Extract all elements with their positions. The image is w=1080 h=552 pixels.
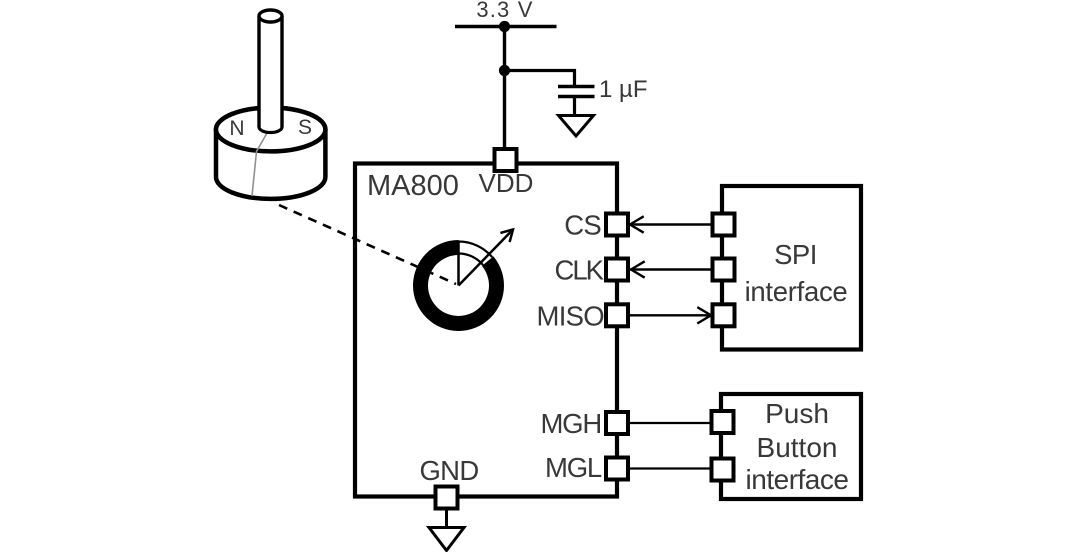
junction dot on rail: [499, 21, 510, 32]
svg-text:MGL: MGL: [545, 452, 602, 483]
SPI interface box: [722, 186, 861, 350]
pin MGL: [606, 458, 628, 480]
svg-text:3.3 V: 3.3 V: [476, 0, 533, 22]
3.3 V supply label: [476, 0, 533, 22]
wire CLK to SPI pin: [628, 261, 713, 277]
ground symbol below GND: [429, 528, 464, 551]
MGL pin label: [545, 452, 602, 483]
svg-text:N: N: [229, 117, 244, 140]
pin GND: [436, 487, 458, 509]
capacitor C1 1uF: [558, 87, 595, 97]
MISO pin label: [537, 301, 605, 332]
3.3V power rail: [455, 25, 557, 28]
VDD pin label: [479, 168, 534, 198]
svg-text:interface: interface: [746, 464, 849, 495]
dashed line from magnet to sensor center: [279, 205, 456, 284]
CLK pin label: [555, 255, 605, 286]
Push Button interface box: [721, 394, 861, 499]
magnet shaft: [259, 10, 282, 133]
svg-text:MISO: MISO: [537, 301, 605, 332]
wire CS to SPI pin: [628, 216, 713, 232]
svg-text:VDD: VDD: [479, 168, 534, 198]
push button pin MGH: [712, 411, 734, 433]
MA800 label: [367, 170, 459, 202]
svg-text:CLK: CLK: [555, 255, 605, 286]
ground symbol below capacitor: [559, 116, 594, 137]
pin CS: [606, 214, 628, 236]
magnet pole label S: [298, 116, 312, 139]
svg-text:Button: Button: [757, 432, 838, 463]
rotation indicator ring: [413, 237, 504, 331]
wire to capacitor: [505, 71, 575, 86]
wire MISO to SPI pin: [628, 307, 713, 323]
capacitor value label 1 uF: [599, 76, 648, 103]
svg-text:interface: interface: [745, 276, 848, 307]
junction dot at capacitor branch: [499, 65, 510, 76]
GND pin label: [419, 455, 478, 486]
MGH pin label: [540, 408, 601, 439]
angle arc inner: [459, 254, 484, 265]
CS pin label: [564, 210, 601, 241]
VDD supply wire: [503, 27, 506, 151]
pin CLK: [606, 259, 628, 281]
SPI interface label: [745, 239, 848, 307]
wire GND pin to ground: [445, 509, 448, 528]
svg-text:SPI: SPI: [774, 239, 817, 270]
magnet disc body: [216, 108, 325, 199]
svg-text:1 µF: 1 µF: [599, 76, 648, 103]
SPI pin 2: [713, 259, 735, 281]
wire capacitor to ground: [573, 97, 576, 115]
push button pin MGL: [712, 459, 734, 481]
svg-text:CS: CS: [564, 210, 601, 241]
angle arrow: [459, 230, 514, 286]
svg-text:GND: GND: [419, 455, 478, 486]
wire MGL to push button pin: [628, 467, 713, 469]
svg-text:S: S: [298, 116, 312, 139]
wire MGH to push button pin: [628, 422, 713, 424]
angle arc outer: [459, 242, 493, 258]
magnet divider line: [252, 133, 267, 196]
magnet pole label N: [229, 117, 244, 140]
svg-text:MA800: MA800: [367, 170, 459, 202]
svg-text:Push: Push: [765, 398, 829, 429]
SPI pin 1: [713, 214, 735, 236]
SPI pin 3: [713, 304, 735, 326]
Push Button interface label: [746, 398, 849, 495]
zero reference line: [457, 241, 460, 286]
pin MGH: [606, 412, 628, 434]
MA800 chip box: [355, 164, 617, 497]
pin MISO: [606, 304, 628, 326]
pin VDD: [495, 149, 517, 171]
svg-text:MGH: MGH: [540, 408, 601, 439]
